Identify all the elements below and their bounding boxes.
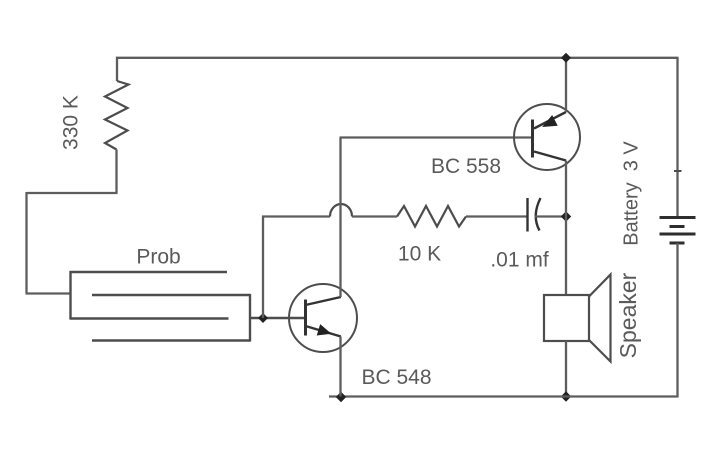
resistor R2 10 K [397,206,466,227]
battery BT1 plate long bottom [660,233,696,236]
transistor Q2 emitter arrowhead [542,115,558,127]
speaker SP1 body [544,295,589,341]
wire left drop [25,192,27,294]
battery polarity tick [674,170,682,172]
transistor Q2 base bar [531,120,534,158]
resistor R1 330 K [105,81,129,150]
svg-text:Prob: Prob [136,246,180,269]
wire riser top horizontal [262,215,330,217]
svg-text:BC 558: BC 558 [431,155,501,178]
svg-text:Battery 3 V: Battery 3 V [620,141,642,246]
capacitor C1 [526,198,528,232]
wire left horizontal [27,192,118,194]
wire C1 to collector node [535,215,566,217]
wire 330K top lead [116,57,118,81]
transistor Q1 BC548 circle [289,284,357,352]
wire Q2 collector down to node [565,161,567,217]
speaker SP1 cone [589,275,611,362]
wire Q2 emitter up to top rail [565,58,567,112]
wire bottom rail [329,395,678,397]
wire riser from base node [262,217,264,319]
svg-text:BC 548: BC 548 [361,366,431,389]
transistor Q1 collector diagonal [306,297,341,305]
wire R2 to C1 [466,215,527,217]
junction dot speaker / bottom rail [561,391,571,401]
wire probe feed [26,292,71,294]
battery BT1 plate long top [660,216,696,219]
svg-text:.01 mf: .01 mf [490,249,549,272]
battery BT1 plate short [670,225,685,228]
wire hop to R2 [352,215,397,217]
wire probe output to Q1 base [250,317,306,319]
junction dot top rail / Q2 emitter [561,53,571,63]
wire Q1 collector up [339,138,341,298]
svg-text:10 K: 10 K [398,243,441,266]
transistor Q2 BC558 circle [514,104,580,170]
transistor Q2 emitter diagonal [534,112,566,129]
svg-text:Speaker: Speaker [615,272,641,358]
junction dot C1/Q2 collector node [561,211,571,221]
junction dot probe/base node [258,313,268,323]
transistor Q1 base bar [304,300,307,336]
svg-text:330 K: 330 K [60,95,83,150]
junction dot Q1 emitter / bottom rail [336,392,346,402]
wire battery to bottom rail [676,243,678,398]
wire Q1 collector to Q2 base [340,136,533,138]
wire 330K bottom lead [115,150,117,194]
wire Q1 emitter down [339,337,341,397]
wire speaker to bottom rail [565,341,567,397]
probe P1 [71,271,251,342]
battery BT1 plate short bottom [670,242,685,245]
wire right rail top [676,57,678,217]
transistor Q1 emitter arrowhead [317,324,332,335]
transistor Q2 collector diagonal [534,152,566,161]
transistor Q1 emitter diagonal [306,326,341,337]
wire top rail [116,57,678,59]
wire node to speaker [565,217,567,296]
wire hop over collector line [330,204,352,217]
